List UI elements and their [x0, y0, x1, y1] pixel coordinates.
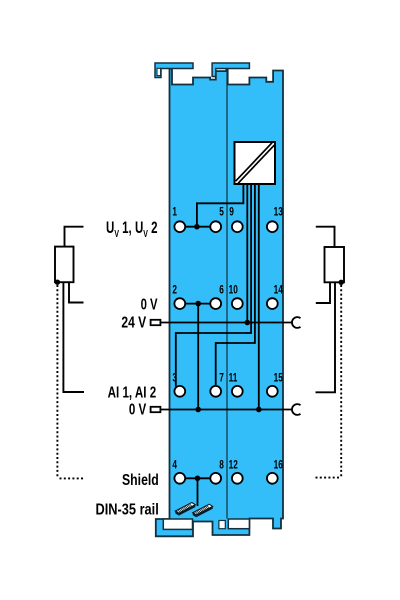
left sensor shield dotted wire — [57, 285, 83, 478]
wire D: box to terminal 7 — [216, 184, 255, 385]
wire E: box to 0V line — [258, 184, 260, 410]
terminal 6 — [210, 298, 221, 309]
svg-text:7: 7 — [219, 372, 224, 385]
label 24V — [121, 313, 146, 331]
A/D converter box U1 — [235, 142, 276, 184]
left sensor R1 — [55, 247, 74, 283]
terminal 2 — [174, 298, 185, 309]
label AI1 AI2 — [108, 384, 157, 401]
svg-text:14: 14 — [274, 284, 284, 297]
wire terminals 4-8 — [181, 477, 215, 479]
pin number 5 — [219, 206, 224, 219]
slit between feet — [219, 521, 225, 529]
24V source box — [151, 320, 161, 325]
pin number 16 — [274, 459, 284, 472]
label Shield — [122, 471, 159, 489]
pin number 2 — [172, 284, 177, 297]
svg-text:1: 1 — [172, 206, 177, 219]
pin number 6 — [219, 284, 224, 297]
0V connector arc — [292, 404, 301, 415]
pin number 7 — [219, 372, 224, 385]
label Uv1 Uv2 — [106, 219, 158, 239]
wire B: box to 24V line — [246, 184, 248, 323]
svg-text:0 V: 0 V — [141, 296, 158, 313]
terminal 12 — [232, 473, 243, 484]
pin number 9 — [229, 206, 234, 219]
divider between module halves — [226, 69, 228, 519]
svg-text:AI 1, AI 2: AI 1, AI 2 — [108, 384, 157, 401]
svg-text:0 V: 0 V — [129, 401, 147, 418]
wire A: box to row1 junction — [197, 184, 244, 227]
wire row4 junction to DIN rail — [197, 478, 199, 506]
svg-text:10: 10 — [229, 284, 239, 297]
svg-text:2: 2 — [172, 284, 177, 297]
terminal 14 — [267, 298, 278, 309]
terminal 5 — [210, 221, 221, 232]
svg-text:12: 12 — [229, 459, 239, 472]
left sensor AI wire — [63, 282, 84, 392]
pin number 1 — [172, 206, 177, 219]
svg-text:DIN-35 rail: DIN-35 rail — [96, 501, 159, 518]
diagonal lines of converter — [236, 143, 272, 181]
right sensor shield dotted wire — [316, 285, 342, 478]
label 0V row3 — [129, 401, 147, 418]
svg-text:15: 15 — [274, 372, 284, 385]
24V connector arc — [292, 317, 301, 328]
junction row4 — [195, 476, 201, 482]
pin number 15 — [274, 372, 284, 385]
0V source box — [151, 407, 161, 412]
svg-text:3: 3 — [172, 372, 177, 385]
left sensor top wire — [65, 227, 84, 247]
svg-text:8: 8 — [219, 459, 224, 472]
svg-text:13: 13 — [274, 206, 284, 219]
wire terminals 1-5 — [181, 226, 215, 228]
terminal 1 — [174, 221, 185, 232]
svg-text:16: 16 — [274, 459, 284, 472]
right sensor AI wire — [316, 282, 336, 392]
label DIN-35 rail — [96, 501, 159, 518]
module body — [156, 69, 283, 537]
DIN rail symbol — [175, 503, 212, 518]
left mounting tab — [155, 63, 193, 78]
junction 0V/row2 wire — [195, 407, 201, 413]
terminal 10 — [232, 298, 243, 309]
terminal 9 — [232, 221, 243, 232]
terminal 3 — [174, 386, 185, 397]
terminal 8 — [210, 473, 221, 484]
wire row2 junction down to 0V line — [197, 304, 199, 410]
left tab hook slot — [157, 68, 161, 75]
svg-text:11: 11 — [229, 372, 238, 385]
junction row2 — [195, 301, 201, 307]
middle mounting tab — [212, 63, 249, 77]
terminal 16 — [267, 473, 278, 484]
wire C: box to terminal 3 — [176, 184, 251, 387]
terminal 7 — [210, 386, 221, 397]
label 0V row2 — [141, 296, 158, 313]
svg-text:5: 5 — [219, 206, 224, 219]
svg-text:Shield: Shield — [122, 471, 159, 489]
svg-text:6: 6 — [219, 284, 224, 297]
right sensor 0V wire — [316, 282, 330, 303]
0V line — [161, 409, 292, 411]
pin number 3 — [172, 372, 177, 385]
pin number 12 — [229, 459, 239, 472]
wire terminals 2-6 — [181, 303, 215, 305]
pin number 10 — [229, 284, 239, 297]
right sensor R2 — [325, 247, 345, 282]
right sensor shield junction — [339, 280, 344, 285]
bottom notch middle foot — [228, 519, 249, 529]
svg-text:4: 4 — [172, 459, 177, 472]
pin number 11 — [229, 372, 238, 385]
24V line — [161, 322, 292, 324]
pin number 14 — [274, 284, 284, 297]
bottom notch left foot — [163, 519, 192, 529]
pin number 13 — [274, 206, 284, 219]
svg-text:24 V: 24 V — [121, 313, 146, 331]
terminal 4 — [174, 473, 185, 484]
left sensor shield junction — [55, 280, 60, 285]
left sensor 0V wire — [69, 282, 84, 302]
pin number 4 — [172, 459, 177, 472]
junction row1 — [194, 224, 200, 230]
terminal 15 — [267, 386, 278, 397]
terminal 13 — [267, 221, 278, 232]
junction 0V/wireE — [256, 407, 262, 413]
svg-text:9: 9 — [229, 206, 234, 219]
right sensor top wire — [316, 227, 335, 247]
pin number 8 — [219, 459, 224, 472]
terminal 11 — [232, 386, 243, 397]
svg-text:UV 1, UV 2: UV 1, UV 2 — [106, 219, 158, 239]
junction 24V/wireB — [245, 320, 251, 326]
